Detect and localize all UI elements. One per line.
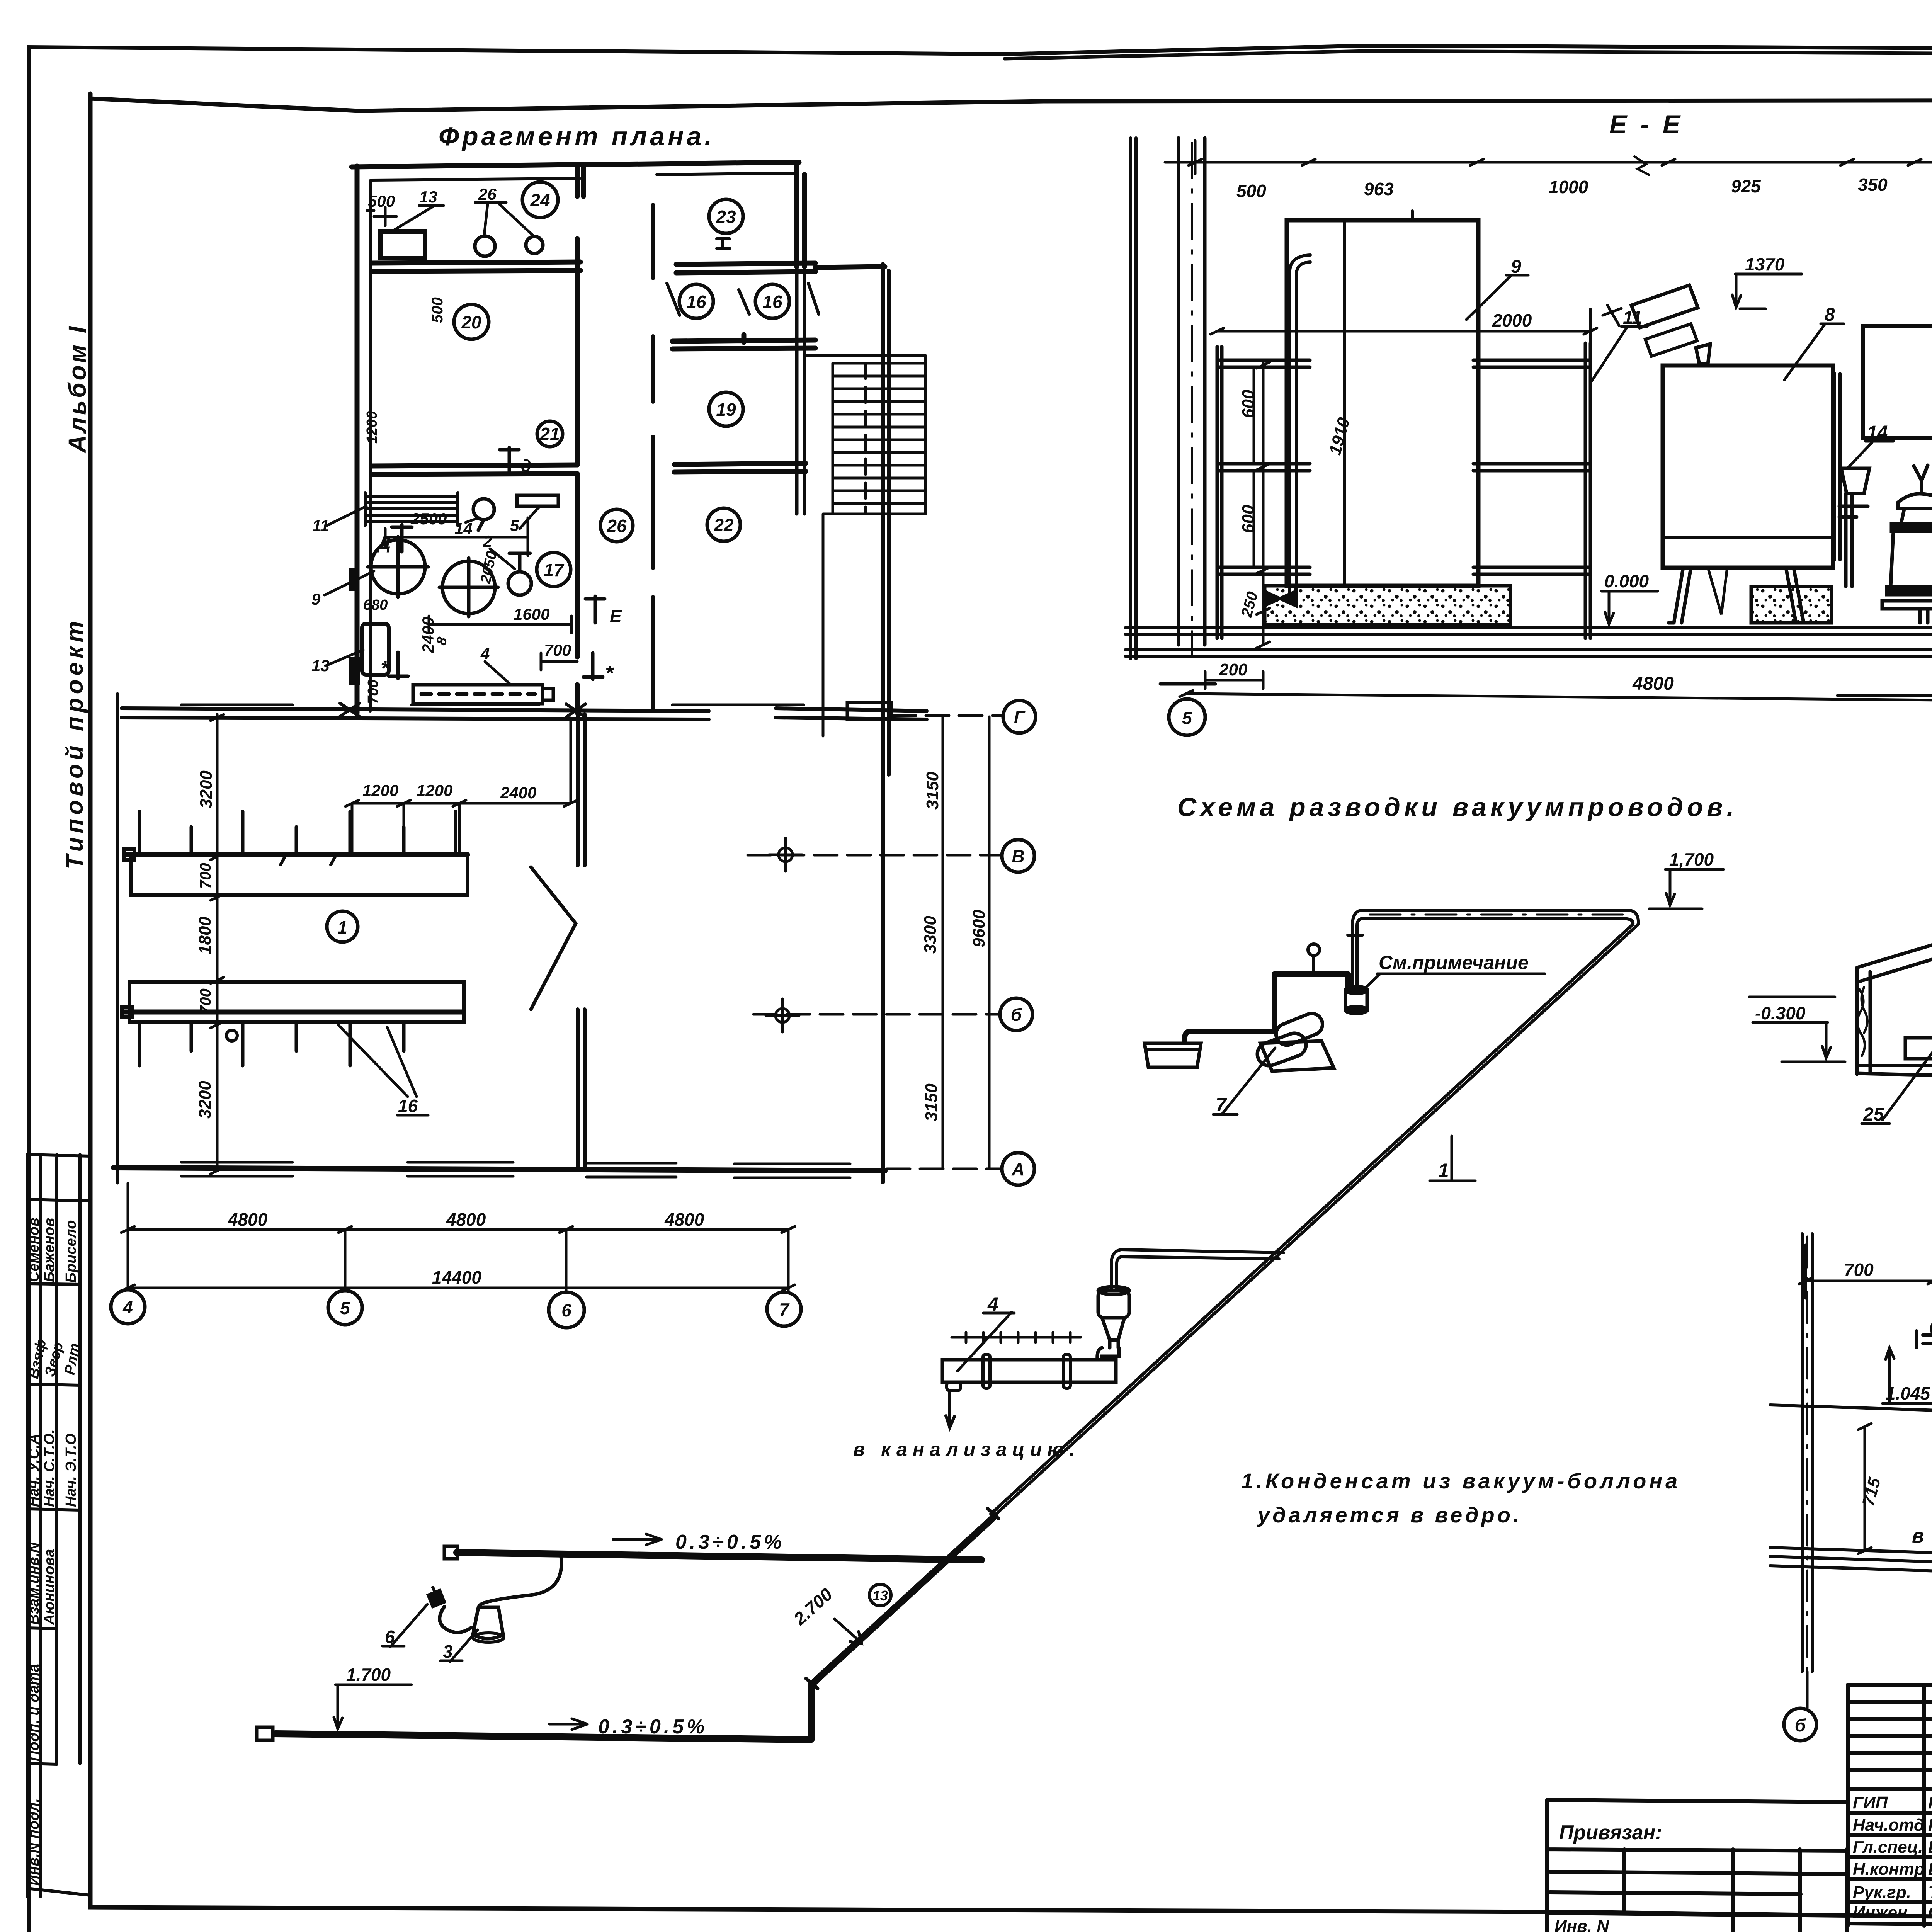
svg-text:2000: 2000 [1492, 310, 1532, 330]
wall top inner [372, 173, 797, 180]
ISO main diagonal pipe 1 [991, 924, 1638, 1514]
leader slashes near rooms 16 [667, 239, 819, 315]
svg-text:Казаков: Казаков [1928, 1816, 1932, 1835]
axis 4 [111, 1290, 145, 1324]
corridor right wall [651, 205, 655, 711]
wall left outer [355, 166, 360, 713]
svg-text:в канализацию.: в канализацию. [853, 1439, 1080, 1460]
svg-text:700: 700 [197, 863, 214, 889]
svg-text:3300: 3300 [921, 916, 940, 954]
svg-text:Нач. С.Т.О.: Нач. С.Т.О. [41, 1429, 58, 1507]
svg-text:963: 963 [1364, 179, 1394, 199]
ISO tray [1145, 1043, 1201, 1067]
svg-text:925: 925 [1731, 176, 1761, 196]
svg-text:500: 500 [429, 297, 446, 323]
room 19 top wall [672, 335, 815, 349]
EE milker top equipment [1603, 285, 1710, 366]
svg-text:500: 500 [1236, 181, 1266, 201]
ZhZh top dim chain [1799, 1245, 1932, 1298]
item 14 circle [473, 499, 494, 520]
dim 1200 1200 2400 [345, 718, 577, 855]
ISO vacuum balloon [1345, 986, 1367, 1014]
EE axis b line to plan [1837, 694, 1932, 697]
axis circles right [1000, 701, 1036, 1185]
room circle 16 [679, 284, 713, 318]
bench room 24 [381, 231, 425, 258]
room number circles [454, 182, 789, 587]
svg-text:14400: 14400 [432, 1267, 481, 1287]
svg-text:19: 19 [716, 400, 736, 420]
dim 700 line small [541, 653, 577, 670]
tall rect item 13 lower [362, 624, 389, 675]
svg-text:1370: 1370 [1745, 254, 1785, 274]
ISO thick feed pipe with valve [1185, 974, 1348, 1041]
stairs left wall [797, 267, 804, 514]
dim 1600 line [429, 616, 571, 633]
svg-text:1,700: 1,700 [1669, 849, 1714, 869]
ISO top pipe run [1348, 910, 1638, 986]
equipment rect item 5 [517, 495, 558, 506]
svg-text:24: 24 [530, 190, 550, 210]
equipment circle B item 8 [442, 561, 495, 614]
svg-text:9600: 9600 [969, 910, 988, 947]
EE top dim line [1165, 139, 1932, 175]
svg-text:Инжен.: Инжен. [1853, 1903, 1912, 1922]
svg-text:21: 21 [539, 424, 560, 444]
hose to teat cluster [480, 1556, 561, 1605]
svg-text:3200: 3200 [197, 770, 216, 808]
svg-text:б: б [1795, 1715, 1806, 1735]
axis 6 [549, 1292, 584, 1328]
left margin stamp table [27, 1155, 90, 1896]
svg-text:4: 4 [122, 1297, 133, 1317]
stairs right edge [823, 355, 925, 736]
svg-text:0.3÷0.5%: 0.3÷0.5% [675, 1531, 785, 1553]
EE axis column 5 [1160, 138, 1215, 684]
svg-text:*: * [605, 662, 614, 685]
EE foundation under tank [1265, 586, 1510, 625]
svg-text:3150: 3150 [923, 772, 942, 810]
svg-text:13: 13 [872, 1588, 888, 1604]
svg-text:500: 500 [368, 192, 395, 210]
svg-text:1000: 1000 [1549, 177, 1588, 197]
svg-text:Е - Е: Е - Е [1609, 110, 1683, 139]
stairs center rail [864, 363, 867, 512]
wall under room 24 [372, 262, 580, 271]
svg-text:16: 16 [398, 1096, 418, 1116]
ISO branch pipe to drain [1111, 1250, 1284, 1290]
svg-text:Брисело: Брисело [63, 1220, 79, 1283]
EE racks right [1473, 343, 1590, 638]
svg-text:Схема разводки вакуумпроводов.: Схема разводки вакуумпроводов. [1177, 793, 1738, 822]
ZhZh floor [1770, 1548, 1932, 1592]
svg-text:5: 5 [340, 1298, 350, 1318]
svg-text:1.Конденсат из вакуум-боллона: 1.Конденсат из вакуум-боллона [1241, 1469, 1680, 1493]
privyazan table [1547, 1800, 1848, 1932]
svg-text:700: 700 [365, 680, 381, 704]
room circle 23 [709, 199, 743, 233]
ISO muffler filter [1097, 1287, 1129, 1360]
svg-text:16: 16 [686, 292, 706, 312]
svg-text:Е: Е [610, 606, 622, 626]
conveyor item 4 [413, 685, 553, 704]
svg-text:Привязан:: Привязан: [1559, 1821, 1662, 1844]
EE bottom dim 4800 [1186, 694, 1932, 701]
svg-text:1800: 1800 [196, 917, 214, 954]
EE dim 2000 [1211, 309, 1597, 348]
vertical dim chain [211, 714, 224, 1174]
bottom axis circles [111, 1290, 801, 1328]
room 19-22 divider wall [674, 463, 806, 472]
svg-text:Семенов: Семенов [26, 1218, 42, 1282]
right outer wall lower [881, 777, 885, 1182]
bottom dim chains [121, 1183, 795, 1291]
stall row 2 [122, 982, 464, 1066]
wall top outer [352, 162, 799, 167]
main wall bottom [114, 1168, 885, 1171]
svg-text:600: 600 [1239, 389, 1258, 418]
lower milking pipe [276, 1734, 811, 1740]
stair treads [804, 355, 925, 736]
left extension line [116, 694, 119, 1183]
svg-text:Подп. и дата: Подп. и дата [26, 1664, 42, 1761]
room circle 21 [537, 421, 563, 447]
axis В [1002, 840, 1034, 872]
room circle 22 [707, 508, 740, 541]
riser pipe to diagonal [811, 1518, 993, 1739]
svg-text:В: В [1012, 846, 1024, 866]
svg-text:22: 22 [713, 515, 734, 535]
DD floor [1857, 1041, 1932, 1065]
EE milker unit 8 [1663, 366, 1840, 568]
svg-text:Бабошин: Бабошин [1928, 1838, 1932, 1857]
svg-text:700: 700 [544, 641, 571, 659]
svg-text:600: 600 [1239, 505, 1258, 533]
svg-text:Взам.инв.N: Взам.инв.N [26, 1542, 42, 1625]
dark blob left wall [349, 657, 360, 685]
svg-text:Бабошин: Бабошин [1928, 1860, 1932, 1879]
svg-text:23: 23 [716, 207, 736, 227]
room circle 17 [537, 553, 571, 587]
svg-text:Терентьев: Терентьев [1928, 1883, 1932, 1902]
svg-text:Инв. N: Инв. N [1554, 1917, 1609, 1932]
svg-text:1.700: 1.700 [346, 1665, 391, 1685]
main wall top [122, 708, 927, 719]
svg-text:1200: 1200 [417, 781, 452, 799]
axis А [1002, 1153, 1034, 1185]
svg-text:1200: 1200 [362, 781, 398, 799]
dim 2500 line [385, 518, 528, 556]
room 23 right wall [797, 162, 804, 267]
svg-text:0.3÷0.5%: 0.3÷0.5% [598, 1716, 707, 1738]
DD shed [1857, 929, 1932, 1076]
EE milker legs [1668, 568, 1806, 623]
section mark T symbols [381, 447, 614, 685]
label leaders [325, 202, 539, 685]
EE cupboard 5 [1863, 326, 1932, 438]
position circle 1 [327, 911, 358, 942]
ZhZh axis circle 6 [1784, 1708, 1816, 1741]
axis 5 [328, 1291, 362, 1325]
corridor walls lower [578, 714, 585, 1168]
svg-text:4: 4 [480, 645, 490, 663]
svg-text:Рук.гр.: Рук.гр. [1853, 1883, 1911, 1902]
svg-text:200: 200 [1219, 660, 1248, 679]
ISO pump unit 7 [1254, 1010, 1334, 1071]
svg-text:16: 16 [762, 292, 782, 312]
svg-text:20: 20 [461, 312, 481, 332]
EE axis circle 5 [1169, 699, 1205, 735]
DD tray 25 [1905, 1038, 1932, 1059]
wall between rooms 20 and 21 [372, 465, 577, 474]
teat cup cluster item 3 [473, 1607, 503, 1639]
svg-text:удаляется в ведро.: удаляется в ведро. [1257, 1503, 1522, 1527]
EE racks left [1217, 347, 1310, 638]
EE left wall [1131, 138, 1136, 659]
EE left vertical dims [1257, 360, 1270, 648]
svg-text:17: 17 [544, 560, 565, 580]
room circle 24 [522, 182, 558, 218]
small circle item 2 [508, 572, 531, 595]
svg-text:3150: 3150 [922, 1083, 941, 1121]
svg-text:350: 350 [1858, 175, 1888, 195]
svg-text:5: 5 [1182, 708, 1192, 728]
door opening V [531, 867, 576, 1009]
svg-text:7: 7 [1216, 1094, 1227, 1116]
plan labels upper [311, 185, 622, 704]
svg-text:Инв.N подл.: Инв.N подл. [26, 1798, 42, 1886]
wall left inner [369, 181, 372, 711]
EE hopper item 14 [1839, 468, 1869, 587]
EE milk can 10 [1882, 465, 1932, 623]
svg-text:б: б [1011, 1005, 1022, 1025]
axis Г [1003, 701, 1036, 733]
svg-text:9: 9 [311, 590, 321, 608]
svg-text:13: 13 [419, 188, 437, 206]
svg-text:Альбом I: Альбом I [63, 324, 91, 454]
svg-text:Нач.отд: Нач.отд [1853, 1816, 1924, 1835]
EE foundation small [1751, 587, 1832, 623]
svg-text:-0.300: -0.300 [1755, 1003, 1806, 1023]
ISO drain pipe with grate [942, 1354, 1116, 1391]
room 23 bottom wall [676, 263, 885, 273]
svg-text:А: А [1011, 1159, 1024, 1179]
svg-text:Г: Г [1014, 707, 1026, 727]
svg-text:0.000: 0.000 [1604, 571, 1649, 591]
room circle 19 [709, 392, 743, 426]
claw item 6 [428, 1587, 444, 1607]
svg-text:Горбачева: Горбачева [1928, 1793, 1932, 1812]
equipment circle A item 9 [368, 495, 558, 617]
equipment circles room 24 [475, 236, 495, 256]
svg-text:д: д [521, 456, 531, 475]
room circle 20 [454, 304, 489, 339]
room circle 16b [755, 284, 789, 318]
svg-text:Н.контр: Н.контр [1853, 1860, 1925, 1879]
svg-text:26: 26 [606, 516, 627, 536]
svg-text:6: 6 [561, 1300, 571, 1320]
svg-text:в канализацию: в канализацию [1912, 1525, 1932, 1547]
svg-text:1: 1 [337, 917, 347, 937]
ZhZh milk lower pipe [1770, 1405, 1932, 1433]
axis Б [1000, 998, 1032, 1031]
svg-text:*: * [381, 657, 390, 680]
svg-text:Аюнинова: Аюнинова [41, 1549, 58, 1625]
svg-text:4800: 4800 [664, 1209, 704, 1230]
svg-text:1.045: 1.045 [1886, 1383, 1931, 1403]
rotated small text in stamp cells [26, 1218, 83, 1886]
ZhZh main milk pipe [1917, 1331, 1932, 1348]
upper milking pipe [457, 1553, 981, 1560]
svg-text:5: 5 [510, 516, 519, 534]
EE vacuum tank 9 [1287, 211, 1478, 586]
svg-text:1600: 1600 [514, 605, 549, 623]
svg-text:2400: 2400 [500, 784, 536, 802]
svg-text:Фрагмент плана.: Фрагмент плана. [439, 122, 715, 151]
svg-text:Нач. У.С.А: Нач. У.С.А [26, 1434, 42, 1507]
svg-text:1200: 1200 [364, 411, 380, 444]
room circle 26 [600, 509, 633, 542]
axis dash lines [748, 716, 1003, 1169]
svg-text:ГИП: ГИП [1853, 1793, 1888, 1812]
corridor left wall [577, 164, 583, 713]
circled 13 [869, 1584, 891, 1606]
svg-text:25: 25 [1863, 1104, 1884, 1125]
svg-text:700: 700 [1844, 1260, 1874, 1280]
svg-text:См.примечание: См.примечание [1379, 952, 1529, 973]
svg-text:2500: 2500 [410, 510, 447, 528]
svg-text:3200: 3200 [196, 1081, 214, 1119]
svg-text:Гл.спец.: Гл.спец. [1853, 1838, 1923, 1857]
svg-text:Скибук: Скибук [1928, 1903, 1932, 1922]
right outer wall [883, 264, 889, 777]
svg-text:26: 26 [478, 185, 497, 203]
EE floor [1125, 628, 1932, 656]
svg-text:4800: 4800 [1632, 673, 1674, 694]
svg-text:4800: 4800 [446, 1209, 486, 1230]
svg-text:8: 8 [1825, 304, 1835, 325]
svg-text:Типовой проект: Типовой проект [61, 617, 88, 869]
svg-text:680: 680 [363, 597, 388, 613]
svg-text:Баженов: Баженов [41, 1218, 58, 1282]
ZhZh vert dims [1859, 1445, 1932, 1524]
EE tank riser pipe [1263, 255, 1310, 606]
svg-text:Нач. Э.Т.О: Нач. Э.Т.О [63, 1434, 79, 1507]
stall row 1 [124, 811, 468, 895]
ZhZh left axis [1802, 1234, 1812, 1708]
radiator item 11 [365, 493, 458, 526]
svg-text:1: 1 [1438, 1160, 1449, 1181]
axis 7 [767, 1292, 801, 1326]
svg-text:4800: 4800 [228, 1209, 268, 1230]
svg-text:7: 7 [779, 1299, 790, 1320]
